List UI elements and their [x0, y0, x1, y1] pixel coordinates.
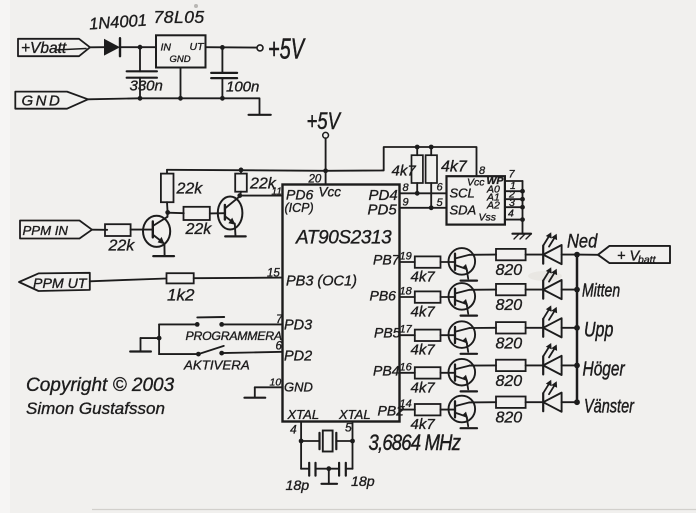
- node after diode: [138, 45, 143, 50]
- svg-text:11: 11: [272, 187, 282, 198]
- flag +Vbatt input: [18, 39, 90, 56]
- light arrow: [549, 347, 556, 358]
- junction: [220, 96, 225, 101]
- wire to bus: [562, 401, 577, 403]
- resistor 4k7 Höger: [415, 367, 441, 378]
- svg-text:18: 18: [400, 286, 413, 298]
- resistor 4k7 Ned: [415, 256, 441, 267]
- LED Vänster: [542, 393, 544, 411]
- regulator U1 78L05 box: [156, 35, 206, 67]
- svg-text:IN: IN: [161, 42, 172, 54]
- svg-text:Copyright © 2003: Copyright © 2003: [26, 375, 175, 396]
- svg-text:A2: A2: [486, 200, 500, 212]
- wire to bus: [562, 254, 577, 256]
- ground: [322, 483, 338, 485]
- wire 78L05 GND stub: [180, 68, 182, 99]
- svg-text:3,6864 MHz: 3,6864 MHz: [369, 432, 461, 456]
- wire A1 pin 2: [505, 198, 523, 200]
- wire to LED: [526, 401, 544, 403]
- junction bus: [574, 287, 580, 293]
- switch S1 PROGRAMMERA wire: [222, 323, 283, 325]
- wire switch bus: [158, 324, 160, 354]
- wire to LED: [526, 327, 544, 329]
- node after regulator: [220, 45, 225, 50]
- resistor 4k7 Upp: [415, 330, 441, 341]
- resistor R1 22k lead: [166, 170, 168, 174]
- transistor Upp driver: [449, 321, 476, 348]
- wire XTAL pin 4: [300, 422, 302, 442]
- resistor 4k7 Vänster: [415, 404, 441, 415]
- light arrow: [544, 270, 551, 281]
- wire EEPROM ground bus: [522, 181, 524, 234]
- svg-text:Ned: Ned: [567, 230, 598, 252]
- junction bus: [574, 252, 580, 258]
- svg-text:7: 7: [276, 314, 283, 326]
- flag GND input: [15, 92, 88, 109]
- wire: [90, 279, 166, 282]
- svg-text:batt: batt: [638, 254, 657, 266]
- capacitor C2 100n lead: [221, 47, 223, 73]
- wire: [120, 46, 156, 48]
- svg-text:15: 15: [267, 268, 280, 280]
- svg-text:78L05: 78L05: [154, 7, 205, 27]
- light arrow: [544, 345, 551, 356]
- svg-text:Vss: Vss: [479, 212, 497, 224]
- wire to ground: [141, 337, 160, 339]
- svg-text:Vänster: Vänster: [584, 394, 635, 417]
- wire bus to +Vbatt: [577, 254, 598, 256]
- resistor 4k7 Mitten: [415, 291, 441, 302]
- svg-text:4k7: 4k7: [411, 416, 436, 433]
- svg-text:GND: GND: [284, 380, 313, 395]
- wire: [352, 441, 354, 469]
- wire to bus: [562, 289, 577, 291]
- channel Vänster: wire from PB pin 14: [400, 409, 415, 411]
- flag +Vbatt right: [598, 246, 670, 263]
- junction: [165, 210, 170, 215]
- wire collector: [470, 254, 497, 256]
- svg-text:+Vbatt: +Vbatt: [21, 40, 67, 57]
- emitter arrow: [158, 237, 165, 244]
- transistor Höger driver: [449, 359, 476, 386]
- wire ground rail: [88, 98, 260, 114]
- light arrow: [549, 309, 556, 320]
- svg-text:22k: 22k: [176, 181, 204, 198]
- wire to LED: [526, 254, 544, 256]
- svg-text:Höger: Höger: [583, 358, 626, 380]
- svg-text:5: 5: [345, 421, 352, 435]
- capacitor C1 330n lead: [139, 47, 141, 71]
- light arrow: [544, 382, 551, 393]
- svg-text:GND: GND: [22, 93, 63, 110]
- switch S2 AKTIVERA wire: [159, 353, 198, 355]
- resistor 820 Vänster: [496, 397, 526, 408]
- svg-text:XTAL: XTAL: [338, 407, 371, 422]
- wire to bus: [562, 327, 577, 329]
- light arrow: [549, 236, 556, 247]
- resistor 820 Upp: [496, 322, 526, 333]
- junction bus: [574, 325, 580, 331]
- transistor Q2: [218, 197, 243, 230]
- flag PPM IN input: [20, 221, 92, 239]
- wire to base: [441, 334, 456, 336]
- svg-text:SCL: SCL: [450, 186, 475, 201]
- ground emitter Vänster: [461, 427, 477, 429]
- junction: [237, 193, 242, 198]
- channel Upp: wire from PB pin 17: [400, 334, 415, 336]
- wire to LED: [526, 289, 544, 291]
- wire: [206, 46, 257, 48]
- svg-text:330n: 330n: [130, 78, 163, 95]
- crystal X1 body: [323, 431, 333, 452]
- resistor 820 Mitten: [496, 284, 526, 295]
- LED Mitten: [542, 281, 544, 299]
- ground emitter Upp: [461, 353, 477, 355]
- svg-text:PPM IN: PPM IN: [23, 223, 69, 238]
- svg-text:6: 6: [276, 341, 283, 353]
- junction: [157, 336, 162, 341]
- svg-text:9: 9: [403, 197, 409, 209]
- wire +5V to Vcc pin 20: [325, 138, 327, 184]
- wire to LED: [526, 364, 544, 366]
- wire collector: [470, 289, 497, 291]
- svg-text:Upp: Upp: [584, 318, 613, 342]
- light arrow: [549, 271, 556, 282]
- svg-text:4: 4: [508, 208, 514, 220]
- channel Höger: wire from PB pin 16: [400, 372, 415, 374]
- wire to PD6 pin 11: [240, 195, 283, 197]
- wire GND pin 10: [255, 386, 283, 388]
- svg-text:5: 5: [437, 197, 444, 209]
- wire collector: [470, 364, 497, 366]
- resistor R3 22k: [184, 207, 210, 220]
- wire collector: [470, 401, 497, 403]
- svg-text:PD5: PD5: [368, 202, 398, 219]
- svg-text:Mitten: Mitten: [582, 279, 620, 301]
- emitter arrow: [228, 218, 235, 225]
- svg-text:SDA: SDA: [450, 203, 477, 218]
- transistor Q1: [143, 216, 170, 247]
- LED Ned: [542, 246, 544, 264]
- svg-text:Simon Gustafsson: Simon Gustafsson: [26, 399, 165, 418]
- wire to PB3 pin 15: [194, 277, 283, 280]
- wire WP pin 7: [505, 180, 523, 182]
- wire to base: [441, 372, 456, 374]
- diode D1 1N4001: [104, 39, 120, 56]
- svg-text:10: 10: [270, 377, 282, 389]
- svg-text:AKTIVERA: AKTIVERA: [183, 358, 250, 373]
- junction: [239, 168, 244, 173]
- wire to base: [441, 296, 456, 298]
- emitter arrow: [462, 337, 468, 344]
- svg-text:7: 7: [509, 169, 516, 181]
- wire: [168, 212, 184, 215]
- junction bus: [574, 363, 580, 369]
- svg-text:+5V: +5V: [307, 108, 342, 135]
- wire PD5 to SDA: [400, 207, 447, 209]
- junction: [429, 145, 434, 150]
- svg-text:22k: 22k: [108, 238, 136, 255]
- svg-text:14: 14: [400, 398, 412, 410]
- resistor R6 4k7 lead: [430, 147, 432, 155]
- svg-text:820: 820: [496, 410, 523, 427]
- svg-text:4k7: 4k7: [411, 342, 436, 359]
- resistor R4 22k: [105, 224, 131, 236]
- resistor R7 1k2: [167, 273, 194, 283]
- svg-text:PD2: PD2: [284, 349, 312, 365]
- emitter arrow: [462, 299, 468, 306]
- svg-text:PPM UT: PPM UT: [33, 276, 88, 292]
- emitter arrow: [462, 264, 468, 271]
- wire to Q1 base: [131, 229, 153, 231]
- wire: [92, 229, 107, 231]
- ground: [249, 114, 271, 116]
- ground: [513, 233, 532, 235]
- svg-text:820: 820: [496, 373, 523, 390]
- wire PD4 to SCL: [400, 192, 447, 194]
- terminal +5V mid: [323, 132, 329, 138]
- wire to base: [441, 261, 456, 263]
- transistor Mitten driver: [449, 283, 476, 310]
- svg-text:16: 16: [400, 361, 413, 373]
- svg-text:PB6: PB6: [370, 288, 397, 304]
- channel Ned: wire from PB pin 19: [400, 261, 415, 263]
- wire 22k pullup rail: [167, 170, 326, 171]
- svg-text:1k2: 1k2: [167, 286, 195, 305]
- resistor R2 22k lead: [240, 170, 242, 174]
- wire to bus: [562, 364, 577, 366]
- ground emitter Mitten: [461, 315, 477, 317]
- svg-text:22k: 22k: [185, 221, 213, 238]
- transistor Vänster driver: [449, 396, 476, 423]
- emitter arrow: [462, 375, 468, 382]
- junction: [178, 96, 183, 101]
- svg-text:8: 8: [403, 182, 410, 194]
- LED Höger: [542, 356, 544, 374]
- svg-text:PB7: PB7: [373, 252, 401, 268]
- channel Mitten: wire from PB pin 18: [400, 296, 415, 298]
- crystal X1 lead: [301, 440, 319, 442]
- EEPROM U3 box: [447, 176, 505, 224]
- svg-text:PROGRAMMERA: PROGRAMMERA: [186, 329, 282, 343]
- svg-text:820: 820: [496, 297, 523, 314]
- wire A2 pin 3: [505, 206, 523, 208]
- svg-text:PB3 (OC1): PB3 (OC1): [286, 274, 357, 290]
- junction: [138, 96, 143, 101]
- svg-text:4k7: 4k7: [411, 379, 436, 396]
- LED Upp: [542, 319, 544, 337]
- svg-text:PD3: PD3: [284, 318, 312, 334]
- svg-text:XTAL: XTAL: [287, 407, 320, 422]
- ground crystal: [328, 469, 330, 484]
- light arrow: [544, 308, 551, 319]
- junction bus: [574, 399, 580, 405]
- wire LED supply bus: [576, 255, 579, 403]
- svg-text:18p: 18p: [286, 478, 310, 494]
- wire: [90, 46, 104, 48]
- wire XTAL pin 5: [352, 422, 354, 442]
- svg-text:PB5: PB5: [374, 325, 401, 341]
- svg-text:4: 4: [290, 423, 297, 437]
- wire Vss pin 4: [505, 219, 523, 221]
- resistor 820 Ned: [496, 249, 526, 260]
- transistor Ned driver: [449, 248, 476, 275]
- junction: [323, 168, 328, 173]
- svg-text:4k7: 4k7: [411, 269, 436, 286]
- wire A0 pin 1: [505, 190, 523, 192]
- svg-text:Vcc: Vcc: [319, 185, 342, 200]
- wire +5V rail to EEPROM: [326, 147, 477, 176]
- junction: [415, 145, 420, 150]
- ground MCU: [245, 397, 266, 399]
- svg-text:6: 6: [437, 182, 444, 194]
- ground Q2 emitter: [225, 235, 246, 237]
- svg-text:100n: 100n: [226, 79, 259, 96]
- svg-text:PB4: PB4: [373, 363, 400, 379]
- resistor R5 4k7 lead: [416, 147, 418, 155]
- svg-text:17: 17: [400, 324, 413, 336]
- svg-text:UT: UT: [190, 41, 206, 53]
- ground emitter Ned: [461, 280, 477, 282]
- resistor 820 Höger: [496, 360, 526, 371]
- svg-text:(ICP): (ICP): [285, 201, 314, 215]
- svg-text:+ V: + V: [617, 249, 640, 265]
- svg-text:19: 19: [400, 251, 412, 263]
- flag PPM UT output: [19, 273, 90, 291]
- emitter arrow: [462, 412, 468, 419]
- wire to PD2 pin 6: [222, 352, 283, 353]
- svg-text:AT90S2313: AT90S2313: [295, 228, 392, 249]
- junction: [326, 466, 331, 471]
- svg-text:820: 820: [496, 262, 523, 279]
- MCU U2 AT90S2313 box: [283, 185, 400, 422]
- svg-text:GND: GND: [170, 54, 191, 65]
- wire: [159, 323, 197, 325]
- light arrow: [549, 384, 556, 395]
- svg-text:4k7: 4k7: [411, 304, 436, 321]
- wire collector: [470, 327, 497, 329]
- capacitor C4 18p: [329, 468, 339, 470]
- ground Q1 emitter: [153, 255, 174, 257]
- svg-text:+5V: +5V: [268, 33, 306, 66]
- ground emitter Höger: [461, 390, 477, 392]
- terminal +5V: [257, 45, 263, 51]
- svg-text:820: 820: [496, 335, 523, 352]
- wire to base: [441, 409, 456, 411]
- svg-text:4k7: 4k7: [392, 163, 417, 180]
- light arrow: [544, 235, 551, 246]
- wire to Q2 base: [210, 212, 225, 214]
- wire: [300, 441, 302, 469]
- svg-text:18p: 18p: [351, 474, 375, 490]
- capacitor C3 18p: [301, 468, 309, 470]
- svg-text:4k7: 4k7: [441, 159, 468, 176]
- ground switches: [130, 350, 151, 352]
